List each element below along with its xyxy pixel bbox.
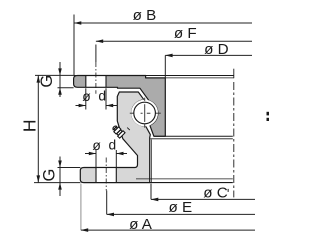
- svg-text:G: G: [40, 169, 58, 182]
- svg-text:ø B: ø B: [133, 7, 157, 24]
- lower chamfer line: [136, 178, 233, 180]
- svg-text:ø E: ø E: [168, 199, 192, 216]
- dimension d top: [76, 88, 118, 109]
- dimension diameter A: [81, 184, 255, 234]
- dimension diameter C: [151, 184, 255, 202]
- top hole centerline: [95, 62, 97, 89]
- right edge marks: [267, 112, 270, 116]
- axis solid tick: [233, 69, 235, 79]
- nipple tick: [127, 128, 130, 131]
- dimension diameter B: [74, 7, 252, 75]
- dimension diameter E: [107, 191, 255, 216]
- grease nipple: [111, 124, 125, 138]
- bottom face line side view: [150, 182, 233, 184]
- inner ring (lower, light): [80, 92, 150, 183]
- dimension d bottom: [85, 137, 127, 167]
- middle line outer ring bottom: [154, 135, 233, 137]
- axis dash-dot: [233, 82, 235, 197]
- svg-text:ø A: ø A: [129, 216, 153, 233]
- ball crosshair vertical: [144, 98, 146, 128]
- dimension diameter D: [165, 41, 252, 77]
- top face line to axis: [74, 75, 234, 77]
- dimension G bottom: [40, 157, 80, 197]
- dimension H: [20, 75, 81, 182]
- svg-text:G: G: [38, 75, 56, 88]
- svg-text:d: d: [108, 137, 116, 152]
- svg-text:H: H: [20, 119, 40, 132]
- bolt hole top flange: [86, 76, 106, 87]
- outer ring U1 (upper, dark): [74, 76, 166, 137]
- ball: [134, 102, 156, 124]
- dimension diameter F: [96, 25, 252, 62]
- small mark after C label: [228, 189, 229, 192]
- svg-text:ø: ø: [92, 138, 101, 153]
- svg-text:ø: ø: [82, 89, 91, 104]
- top chamfer line: [146, 77, 234, 79]
- svg-text:ø C: ø C: [203, 184, 227, 201]
- bolt hole bottom flange: [96, 168, 116, 183]
- dimension G top: [38, 62, 73, 97]
- svg-text:d: d: [98, 89, 106, 104]
- crosshair over ball: [144, 104, 146, 122]
- svg-text:ø F: ø F: [174, 25, 197, 42]
- middle line inner ring top: [150, 138, 233, 140]
- ball crosshair horizontal: [130, 112, 161, 114]
- raceway gap mask: [132, 101, 157, 126]
- bottom hole centerline: [105, 158, 107, 191]
- cylinder C side view vertical: [150, 140, 152, 183]
- svg-text:ø D: ø D: [204, 41, 228, 58]
